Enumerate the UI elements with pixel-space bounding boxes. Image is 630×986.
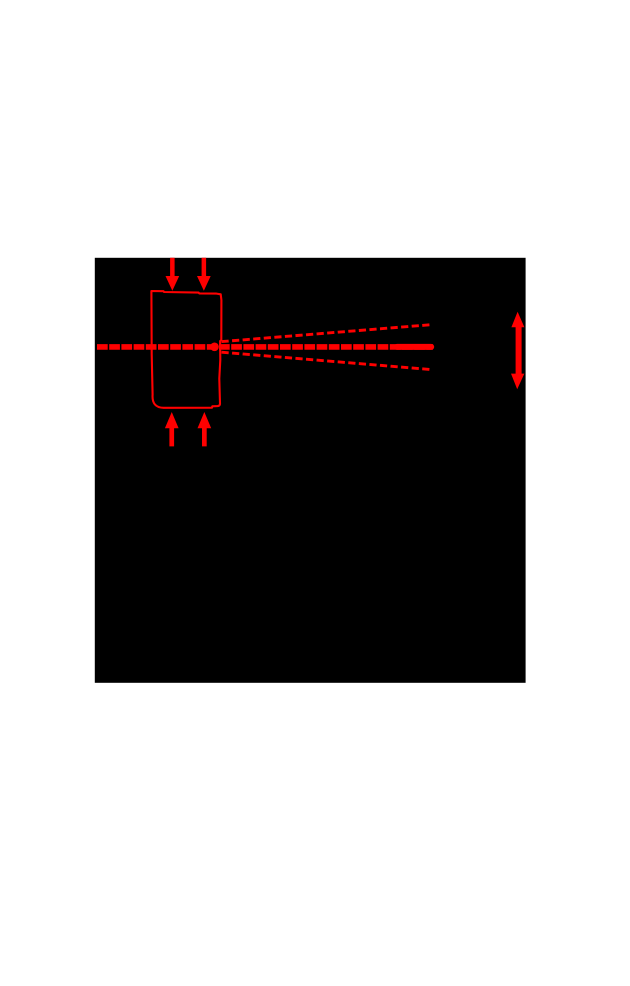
probe beam solid right segment [397, 344, 431, 350]
pump arrow bottom-right (upward) [198, 412, 212, 446]
black figure panel [95, 258, 526, 683]
beam focus dot at cell exit [210, 343, 219, 352]
pump arrow top-right (downward) [197, 258, 211, 291]
probe beam (thick dashed horizontal line) [97, 344, 433, 350]
upper divergence dashed line [222, 325, 433, 342]
pump arrow top-left (downward) [166, 258, 180, 291]
pump arrow bottom-left (upward) [165, 412, 179, 446]
vapor cell outline [151, 291, 221, 408]
double-headed polarization arrow [511, 312, 524, 390]
lower divergence dashed line [222, 352, 433, 369]
